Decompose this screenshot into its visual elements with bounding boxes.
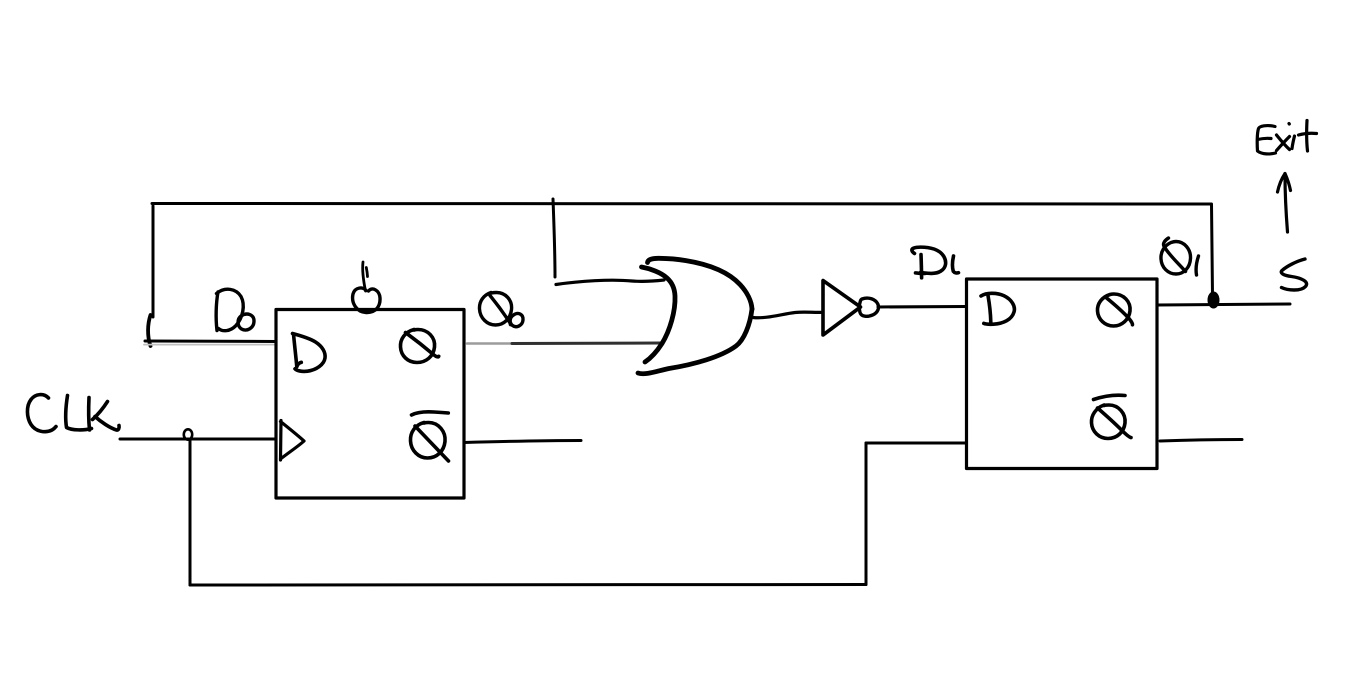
wire: CLK into U2 [866, 442, 966, 445]
label D1 [912, 247, 959, 278]
wire: U1 Q-bar output stub [464, 441, 581, 443]
label Q0 outside U1 [479, 293, 523, 327]
label D0 [216, 289, 254, 330]
node: junction dot on Q1 line [1208, 292, 1220, 309]
or-gate G1 back edge [642, 267, 676, 362]
wire: CLK input to U1 [120, 438, 276, 441]
flip-flop U2 box [967, 279, 1158, 469]
or-gate G1 bottom edge [638, 309, 752, 374]
pin label Q-bar inside U2 [1091, 395, 1131, 438]
pin label Q inside U1 [400, 330, 438, 363]
label Exit [1257, 121, 1316, 154]
preset stub on top of U1 [363, 262, 368, 291]
wire: vertical drop from feedback top to OR input A [553, 199, 555, 277]
node: CLK branch small circle [184, 429, 192, 439]
wire: CLK vertical down from branch [189, 440, 192, 585]
label S [1281, 259, 1306, 290]
pin label Q-bar inside U1 [410, 412, 448, 461]
wire: Q1 output run to S [1157, 304, 1290, 305]
inverter U3 bubble [859, 298, 878, 316]
arrow up to Exit [1278, 174, 1291, 233]
wire: left vertical drop of feedback to D0 [152, 206, 155, 317]
wire: Q0 output to OR gate input B [467, 342, 513, 345]
pin label D inside U2 [981, 293, 1014, 324]
pin label Q inside U2 [1097, 294, 1132, 326]
label Q1 [1161, 238, 1199, 275]
wire: inverter output to D1 of U2 [878, 305, 966, 309]
wire: OR gate input A horizontal (wavy) [556, 280, 664, 285]
pin label D inside U1 [293, 334, 326, 372]
wire: CLK bottom run [190, 583, 866, 587]
wire: feedback vertical from Q1 node up to top run [1212, 204, 1213, 295]
or-gate G1 top edge [648, 258, 753, 309]
clock pin triangle inside U1 [281, 421, 305, 461]
wire: CLK riser up to U2 [865, 443, 868, 585]
flip-flop U1 box [276, 310, 464, 499]
wire: OR output to inverter input [753, 312, 822, 318]
wire: D0 input into U1 [145, 340, 276, 344]
wire: feedback top run from Q1 node to D0 side [152, 202, 1211, 206]
wire: U2 Q-bar output stub [1160, 440, 1242, 442]
label CLK [27, 395, 119, 432]
inverter U3 triangle [823, 281, 861, 336]
